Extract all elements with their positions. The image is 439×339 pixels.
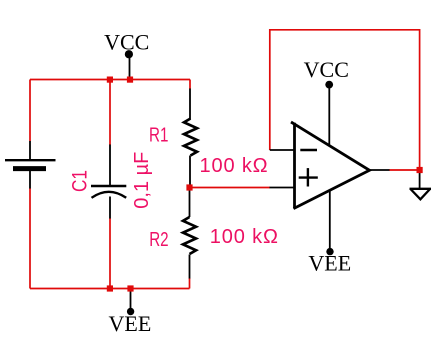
wire R1 branch upper [189,80,191,90]
svg-text:VEE: VEE [308,250,351,275]
wire left column upper (battery +) [29,80,31,142]
wire R2 branch lower [189,278,191,289]
wire top rail VCC net [30,79,190,81]
svg-text:VCC: VCC [104,29,149,54]
power dot VCC op-amp [325,81,333,89]
wire feedback loop rectangle [270,30,420,170]
wire left column lower (battery -) [29,188,31,289]
wire battery top lead [29,141,31,160]
wire R2 top lead [189,188,191,218]
svg-text:0,1 µF: 0,1 µF [131,152,153,209]
wire battery bottom lead [29,171,31,189]
pin marker minus (inverting) [300,149,317,151]
node junction bottom rail at VEE stub [127,285,133,291]
node junction top rail at capacitor [107,77,113,83]
wire VCC stub op-amp [328,85,330,147]
svg-text:VEE: VEE [109,311,152,336]
wire op-amp inverting input stub [270,149,295,151]
wire capacitor branch upper [109,80,111,146]
power dot VEE left [127,308,134,315]
svg-text:C1: C1 [69,170,92,192]
capacitor C1 [91,186,126,198]
svg-text:R1: R1 [149,123,168,146]
wire VCC stub left (black) [129,56,131,80]
wire op-amp output to feedback [389,169,420,171]
wire R2 bottom lead [189,255,191,279]
op-amp U1 [291,122,370,209]
node junction divider R1/R2 [186,184,192,190]
pin marker plus (non-inverting) [299,176,318,178]
svg-text:100 kΩ: 100 kΩ [210,226,279,248]
wire capacitor bottom lead [109,197,111,219]
svg-text:100 kΩ: 100 kΩ [200,155,269,177]
resistor R1 [184,119,197,156]
wire op-amp non-inverting input stub [270,187,295,189]
node junction top rail at VCC stub [127,77,133,83]
wire capacitor branch lower [109,218,111,289]
wire R1 bottom lead [189,156,191,188]
wire capacitor top lead [109,145,111,186]
wire op-amp output (black) [369,169,390,171]
wire VEE stub op-amp [329,190,331,250]
battery B1 [5,160,56,168]
wire ground stub [419,170,421,188]
wire R1 top lead [189,89,191,120]
wire VEE stub left [130,289,132,311]
power dot VCC left [125,50,133,58]
resistor R2 [183,217,196,254]
wire bottom rail VEE net [30,288,190,290]
ground symbol [410,189,432,200]
svg-text:VCC: VCC [304,57,349,82]
wire divider node to op-amp + input [190,187,271,189]
power dot VEE op-amp [326,248,333,255]
node junction output/feedback/ground [417,167,423,173]
svg-text:R2: R2 [149,228,168,251]
node junction bottom rail at capacitor [107,285,113,291]
